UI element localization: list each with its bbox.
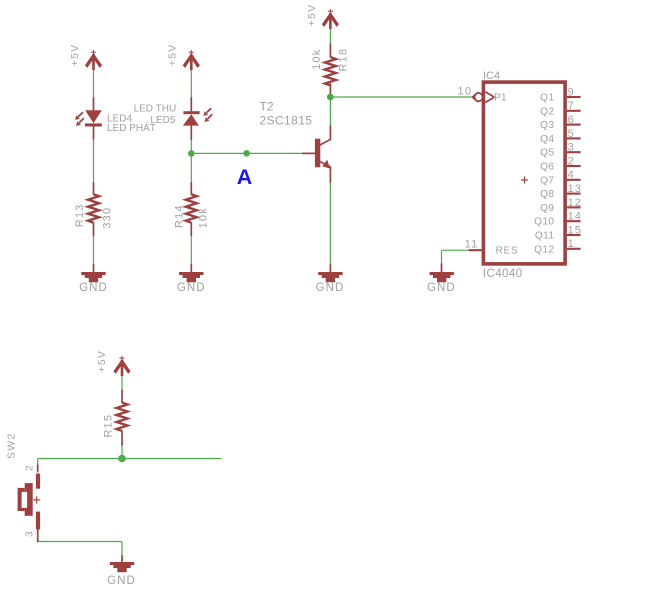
svg-text:Q7: Q7 xyxy=(540,175,554,186)
svg-text:+5V: +5V xyxy=(97,350,108,373)
svg-text:GND: GND xyxy=(316,282,345,294)
svg-text:A: A xyxy=(237,165,253,189)
svg-text:12: 12 xyxy=(568,197,582,209)
svg-text:330: 330 xyxy=(101,207,113,229)
svg-text:Q6: Q6 xyxy=(540,162,554,173)
svg-text:13: 13 xyxy=(568,183,582,195)
svg-text:Q11: Q11 xyxy=(535,231,554,242)
svg-text:9: 9 xyxy=(568,86,575,98)
svg-text:RES: RES xyxy=(496,246,519,257)
svg-text:LED PHÁT: LED PHÁT xyxy=(107,121,156,134)
svg-text:10: 10 xyxy=(458,86,473,98)
svg-text:Q2: Q2 xyxy=(540,106,554,117)
svg-text:11: 11 xyxy=(465,239,479,251)
svg-text:R18: R18 xyxy=(337,48,349,72)
svg-text:1: 1 xyxy=(568,238,575,250)
svg-text:GND: GND xyxy=(427,282,456,294)
svg-text:6: 6 xyxy=(568,114,575,126)
svg-text:GND: GND xyxy=(107,575,136,587)
svg-text:LED THU: LED THU xyxy=(134,104,177,115)
svg-text:3: 3 xyxy=(568,142,575,154)
svg-text:5: 5 xyxy=(568,128,575,140)
svg-text:Q5: Q5 xyxy=(540,148,554,159)
svg-text:GND: GND xyxy=(177,282,206,294)
svg-text:P1: P1 xyxy=(494,93,507,104)
svg-text:2SC1815: 2SC1815 xyxy=(260,114,313,128)
svg-text:2: 2 xyxy=(568,155,575,167)
svg-text:15: 15 xyxy=(568,224,582,236)
svg-text:10k: 10k xyxy=(311,49,323,70)
svg-text:Q3: Q3 xyxy=(540,120,554,131)
svg-text:4: 4 xyxy=(568,169,575,181)
svg-text:SW2: SW2 xyxy=(6,432,18,459)
svg-text:LED5: LED5 xyxy=(150,115,175,126)
svg-text:GND: GND xyxy=(79,282,108,294)
svg-text:+5V: +5V xyxy=(168,43,179,66)
svg-text:+5V: +5V xyxy=(307,3,318,26)
svg-text:+5V: +5V xyxy=(70,43,81,66)
svg-text:T2: T2 xyxy=(260,99,274,113)
svg-text:R14: R14 xyxy=(173,204,185,228)
svg-text:Q9: Q9 xyxy=(540,203,554,214)
svg-text:Q1: Q1 xyxy=(540,93,554,104)
svg-text:Q8: Q8 xyxy=(540,189,554,200)
svg-text:IC4: IC4 xyxy=(483,70,500,82)
svg-text:R13: R13 xyxy=(74,203,86,227)
svg-text:IC4040: IC4040 xyxy=(483,268,523,280)
svg-text:7: 7 xyxy=(568,100,575,112)
svg-text:14: 14 xyxy=(568,211,582,223)
svg-text:Q10: Q10 xyxy=(534,217,554,228)
svg-text:10k: 10k xyxy=(197,207,209,228)
svg-text:2: 2 xyxy=(25,465,36,471)
svg-text:Q4: Q4 xyxy=(540,134,554,145)
svg-text:3: 3 xyxy=(25,531,36,537)
svg-text:Q12: Q12 xyxy=(534,244,554,255)
svg-text:R15: R15 xyxy=(103,414,115,438)
